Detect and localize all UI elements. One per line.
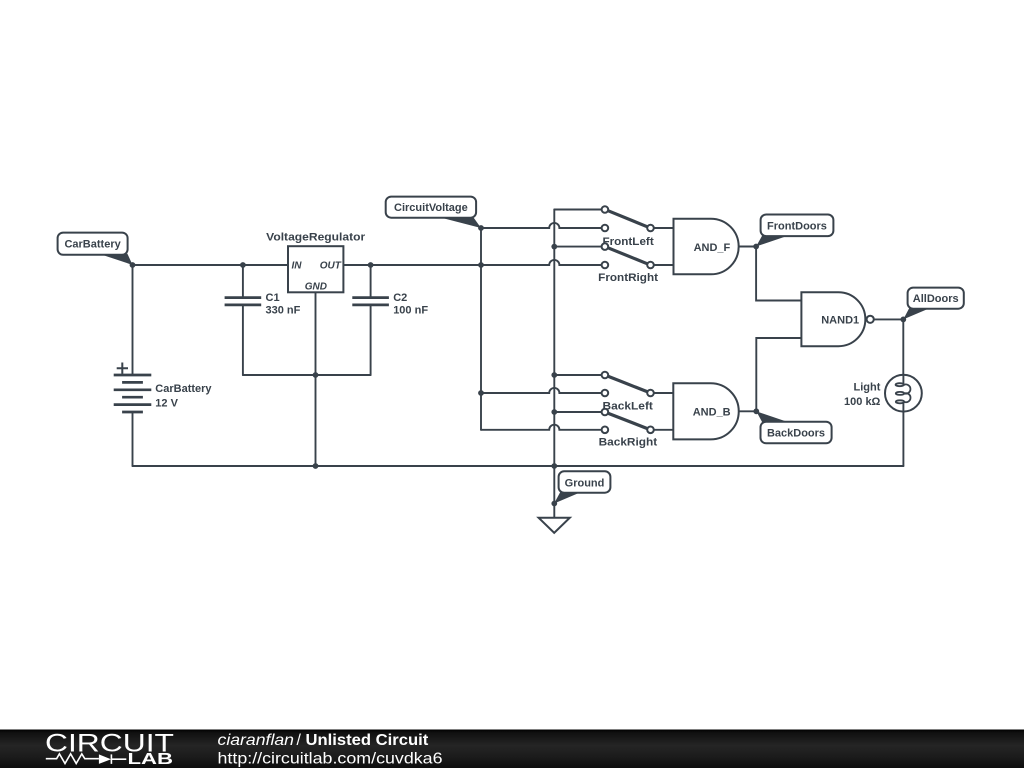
and-gate AND_F [674, 219, 739, 275]
svg-text:AND_F: AND_F [694, 242, 731, 254]
svg-text:100 kΩ: 100 kΩ [844, 396, 881, 408]
wire FrontDoors node to NAND1 input A [756, 247, 801, 301]
wire BackRight common to AND_B input B [651, 429, 674, 431]
flag CarBattery [58, 233, 133, 265]
wire AND_F output to FrontDoors node [739, 246, 756, 248]
svg-text:LAB: LAB [128, 751, 174, 768]
ground symbol [539, 518, 570, 533]
flag CircuitVoltage [386, 197, 481, 228]
wire NAND1 output to AllDoors node [874, 318, 903, 320]
svg-text:Unlisted Circuit: Unlisted Circuit [306, 732, 430, 749]
svg-text:AND_B: AND_B [693, 407, 731, 419]
wire FrontRight common to AND_F input B [651, 264, 674, 266]
svg-text:NAND1: NAND1 [821, 314, 859, 326]
wire to BackRight bottom throw (hop over ground bus) [481, 425, 605, 430]
wire AllDoors node down to Light top [902, 319, 904, 374]
wire capacitor bottom link [243, 374, 371, 376]
junction C1 top [240, 262, 246, 268]
wire C2 bottom stub [370, 305, 372, 375]
wire top rail from CarBattery node to VR IN [133, 264, 289, 266]
svg-text:FrontLeft: FrontLeft [603, 236, 655, 248]
junction C2 top [368, 262, 374, 268]
svg-text:C1: C1 [266, 292, 280, 304]
wire Light bottom to ground rail [902, 412, 904, 466]
node Ground [551, 501, 557, 507]
capacitor C2 100 nF [352, 292, 428, 316]
svg-text:/: / [297, 732, 302, 749]
wire bottom ground rail [133, 465, 904, 467]
svg-text:IN: IN [292, 260, 303, 271]
node AllDoors [900, 317, 906, 323]
lamp Light 100 kOhm [844, 375, 922, 412]
junction BackLeft feed [478, 390, 484, 396]
svg-text:VoltageRegulator: VoltageRegulator [266, 232, 366, 244]
switch BackRight [599, 409, 658, 449]
flag AllDoors [903, 288, 964, 320]
node FrontDoors [753, 244, 759, 250]
junction bus BackRight [551, 409, 557, 415]
svg-text:http://circuitlab.com/cuvdka6: http://circuitlab.com/cuvdka6 [218, 750, 443, 767]
svg-text:12 V: 12 V [155, 398, 178, 410]
svg-text:CircuitVoltage: CircuitVoltage [394, 202, 468, 214]
and-gate AND_B [673, 383, 738, 439]
logo resistor-diode [46, 754, 127, 764]
wire to BackLeft bottom throw (hop over ground bus) [481, 388, 605, 393]
svg-text:BackDoors: BackDoors [767, 428, 825, 440]
svg-text:FrontRight: FrontRight [598, 272, 658, 284]
svg-text:CarBattery: CarBattery [64, 239, 121, 251]
wire BackDoors node to NAND1 input B [756, 338, 801, 411]
wire CircuitVoltage node to FrontLeft bottom throw (hop over ground bus) [481, 223, 605, 228]
battery CarBattery 12 V [114, 363, 213, 413]
node CarBattery [130, 262, 136, 268]
wire C1 bottom stub [242, 305, 244, 375]
svg-text:FrontDoors: FrontDoors [767, 220, 827, 232]
flag FrontDoors [756, 215, 833, 247]
svg-text:GND: GND [305, 282, 327, 293]
svg-text:330 nF: 330 nF [266, 305, 301, 317]
node CircuitVoltage [478, 225, 484, 231]
svg-text:BackLeft: BackLeft [603, 400, 654, 412]
svg-text:CarBattery: CarBattery [155, 383, 212, 395]
wire VR OUT to FrontRight bottom throw (hop over ground bus) [343, 260, 605, 265]
junction VR GND / caps [313, 372, 319, 378]
junction CircuitVoltage on rail [478, 262, 484, 268]
wire ground bus to FrontLeft top throw [554, 209, 605, 211]
wire CircuitVoltage vertical feed [480, 228, 482, 430]
wire ground bus to BackLeft top throw [554, 374, 605, 376]
svg-text:C2: C2 [393, 292, 407, 304]
svg-text:Ground: Ground [565, 477, 605, 489]
node BackDoors [753, 408, 759, 414]
junction VR GND on rail [313, 463, 319, 469]
wire FrontLeft common to AND_F input A [651, 227, 674, 229]
flag BackDoors [756, 411, 831, 443]
switch FrontRight [598, 243, 658, 284]
FOOTER BAR [0, 730, 1024, 768]
nand-gate NAND1 [801, 292, 873, 346]
wire C2 top stub [370, 265, 372, 298]
wire battery negative lead [132, 412, 134, 466]
svg-text:AllDoors: AllDoors [913, 293, 959, 305]
svg-text:ciaranflan: ciaranflan [218, 732, 295, 749]
wire VR GND down to rail [315, 292, 317, 466]
wire ground bus to FrontRight top throw [554, 246, 605, 248]
capacitor C1 330 nF [225, 292, 301, 316]
regulator VoltageRegulator [266, 232, 366, 293]
flag Ground [554, 471, 610, 503]
svg-text:Light: Light [854, 382, 881, 394]
wire ground bus vertical [553, 210, 555, 518]
junction bus BackLeft [551, 372, 557, 378]
svg-text:100 nF: 100 nF [393, 305, 428, 317]
svg-text:BackRight: BackRight [599, 437, 658, 449]
switch BackLeft [602, 372, 654, 413]
wire C1 top stub [242, 265, 244, 298]
wire battery positive lead [132, 265, 134, 375]
junction bus FrontRight [551, 244, 557, 250]
wire BackLeft common to AND_B input A [651, 392, 674, 394]
wire ground bus to BackRight top throw [554, 411, 605, 413]
svg-text:OUT: OUT [320, 260, 342, 271]
wire AND_B output to BackDoors node [739, 410, 757, 412]
switch FrontLeft [602, 206, 654, 248]
junction bus on rail [551, 463, 557, 469]
